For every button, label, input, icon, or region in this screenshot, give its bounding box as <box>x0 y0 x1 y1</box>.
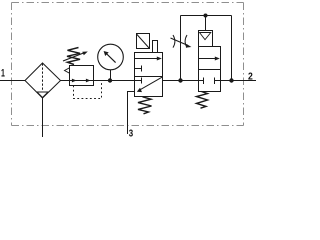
lower position: exhaust diagonal <box>140 77 162 90</box>
upper position: open flow arrow <box>199 58 216 60</box>
wire: valve V1 exhaust line to port 3 <box>128 92 135 135</box>
regulator feedback dashed line <box>74 81 102 99</box>
regulator adjustment spring <box>67 48 80 65</box>
valve V2 pilot head <box>199 31 213 47</box>
valve V2 body <box>199 47 221 92</box>
valve V2 return spring <box>197 92 208 109</box>
valve V1 return spring <box>138 97 152 114</box>
regulator R1 body <box>65 66 94 86</box>
pressure gauge G1 <box>98 44 124 80</box>
node: junction bypass/outlet <box>229 78 233 82</box>
node: junction throttle branch <box>178 78 182 82</box>
throttle valve D1 <box>171 35 192 48</box>
valve V1 solenoid box <box>137 34 150 49</box>
wire: pilot top line <box>181 15 232 17</box>
valve V1 body <box>135 53 163 97</box>
filter F1 body <box>25 63 61 98</box>
wire: pilot drop to valve <box>205 16 207 31</box>
enclosure dash-dot boundary <box>12 3 244 126</box>
node: junction gauge <box>108 78 112 82</box>
valve V1 manual override <box>153 41 158 53</box>
wire: main line port 1 to port 2 <box>0 80 256 82</box>
node: junction top pilot <box>204 14 208 18</box>
upper position: open flow arrow <box>135 58 158 60</box>
lower position: blocked port T left <box>199 78 204 85</box>
relief vent triangle <box>65 68 70 73</box>
wire: throttle branch riser <box>180 16 182 81</box>
svg-text:1: 1 <box>1 68 5 80</box>
upper position: blocked port T <box>135 66 142 72</box>
lower position: blocked port T <box>135 78 142 84</box>
svg-text:2: 2 <box>248 70 253 82</box>
wire: filter drain line <box>42 98 44 137</box>
regulator adjustment arrow <box>63 53 84 61</box>
wire: bypass down leg <box>231 16 233 81</box>
lower position: blocked port T right <box>215 78 221 85</box>
svg-text:3: 3 <box>129 127 134 139</box>
